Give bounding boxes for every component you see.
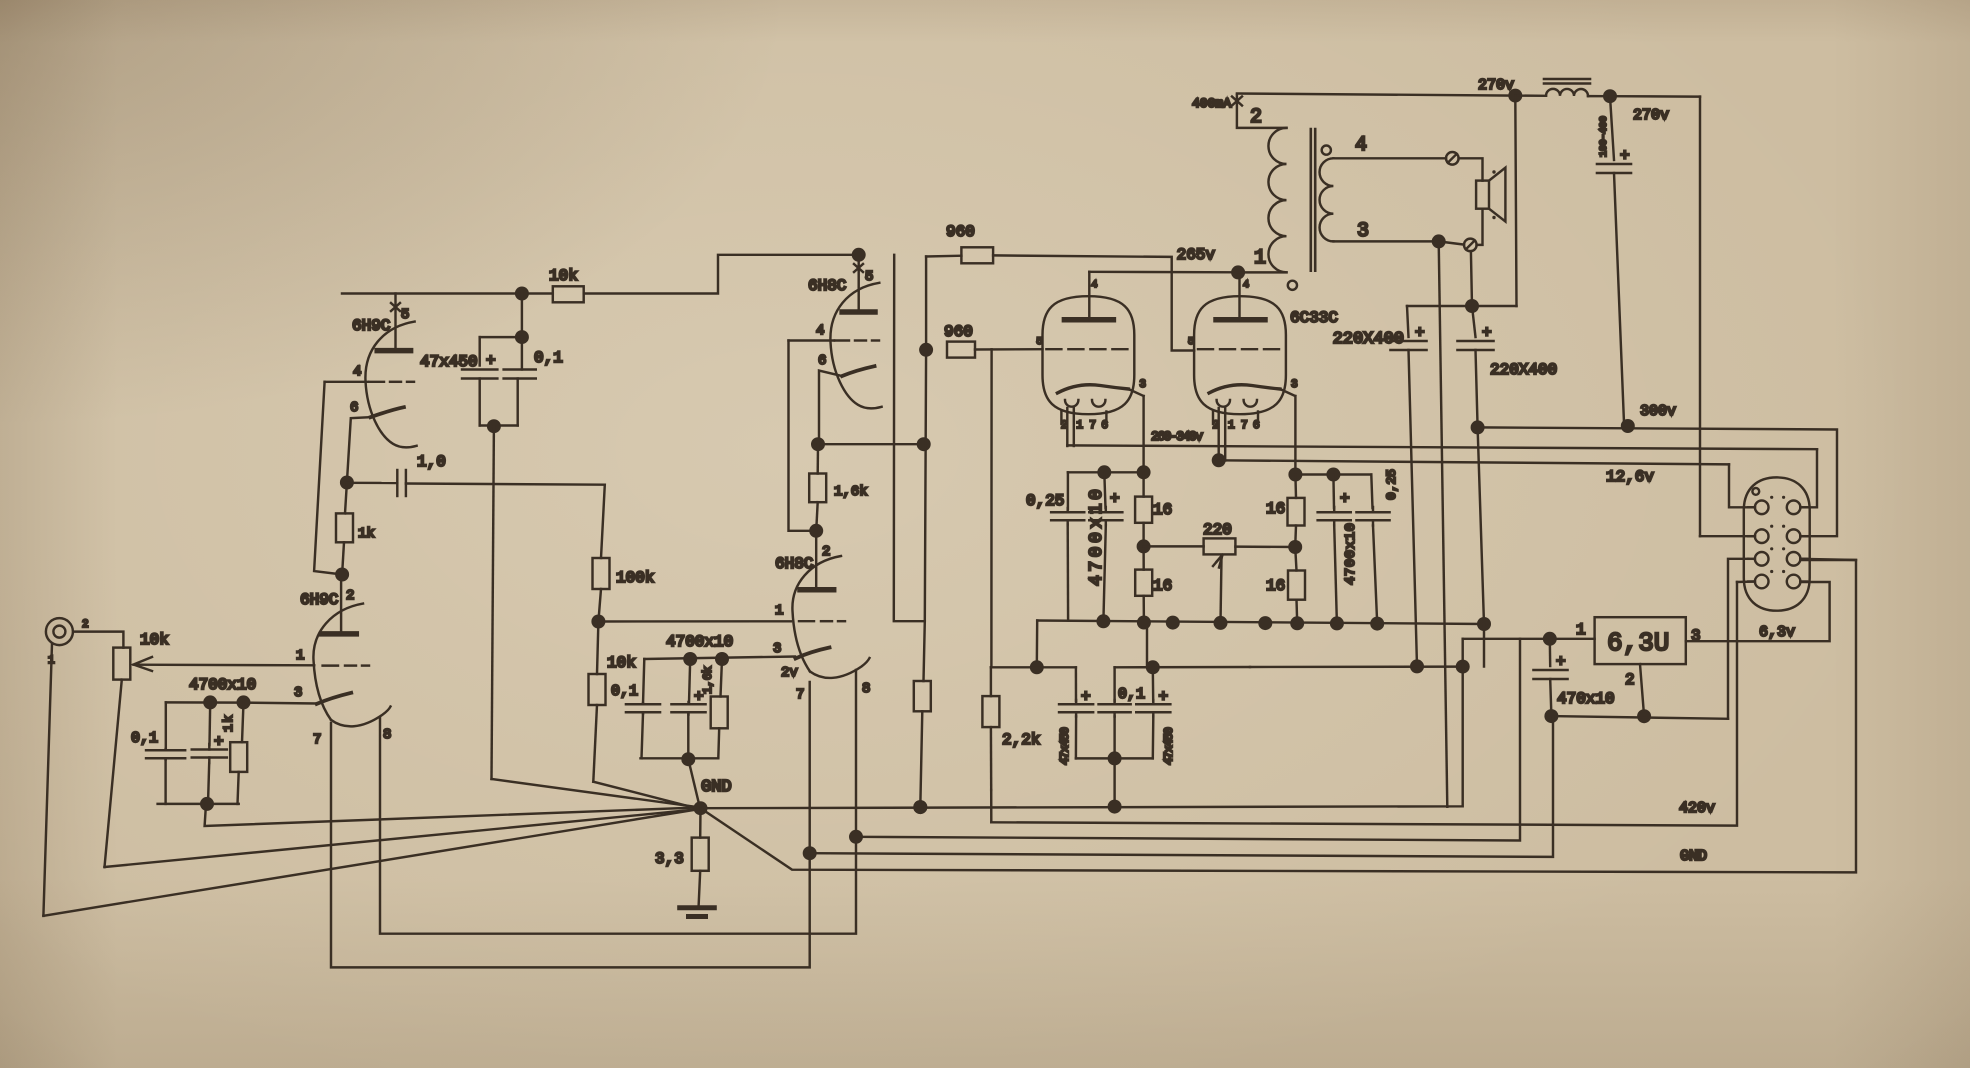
wire R6 bottom lead: [593, 705, 597, 782]
svg-text:10k: 10k: [140, 631, 169, 649]
wire R7 top lead: [721, 659, 723, 697]
svg-text:6,3v: 6,3v: [1759, 624, 1795, 641]
wire C9 bottom lead: [1334, 526, 1337, 624]
svg-text:6: 6: [818, 353, 826, 369]
node reg input / C17 top: [1543, 632, 1557, 646]
node GND bus a: [913, 800, 927, 814]
wire R8 bottom lead: [816, 502, 818, 531]
wire 16 mid to 220: [1144, 545, 1204, 547]
resistor R6 10k: [589, 674, 606, 705]
wire R17 bottom lead: [1295, 600, 1298, 624]
svg-text:47x450: 47x450: [420, 353, 478, 371]
socket pin 3R: [1787, 552, 1801, 566]
wire C16 top lead: [1472, 306, 1476, 337]
wire bus left end down: [1036, 621, 1039, 668]
capacitor C17 470x10: [1534, 669, 1568, 672]
wire fb vertical bottom: [920, 711, 922, 807]
capacitor C4 0,1: [504, 368, 536, 371]
wire C5 top lead: [643, 659, 644, 704]
wire GND to 3,3: [699, 808, 702, 837]
choke L1: [1546, 89, 1588, 96]
wire wiper to grid U1b: [134, 663, 315, 666]
wire C4 bottom lead: [516, 379, 518, 426]
tube U1b grid dashes: [323, 664, 338, 666]
wire C12 bottom lead: [1113, 717, 1115, 759]
svg-text:4700x10: 4700x10: [189, 676, 256, 694]
svg-text:6Н9С: 6Н9С: [352, 317, 390, 335]
wire jack sleeve to GND fan: [43, 810, 696, 916]
wire R13 top lead: [1142, 472, 1144, 496]
svg-text:+: +: [1482, 324, 1492, 342]
svg-text:7: 7: [1241, 420, 1248, 432]
svg-text:1,6k: 1,6k: [701, 666, 715, 694]
tube U1a grid dashes: [369, 381, 384, 383]
node heater A: [803, 846, 817, 860]
wire rail drop 1: [894, 255, 925, 621]
tube U3b heater loops: [1217, 400, 1230, 407]
node U2a plate rail: [852, 248, 866, 262]
node GND: [694, 801, 708, 815]
capacitor C3 47x450 polarized: [462, 368, 497, 371]
node bus wiper: [1214, 616, 1228, 630]
svg-text:100-400: 100-400: [1599, 116, 1610, 157]
tube U3b plate bar: [1216, 317, 1265, 323]
svg-text:220X400: 220X400: [1490, 361, 1557, 379]
wire 220 to right mid: [1235, 545, 1295, 548]
wire C12 top lead: [1113, 667, 1115, 701]
transformer T1 secondary winding: [1320, 158, 1334, 241]
svg-text:400mA: 400mA: [1192, 96, 1231, 111]
wire pot bottom down: [105, 680, 122, 867]
wire primary bottom to 265v: [1238, 271, 1286, 273]
tube U3a cathode exit: [1128, 389, 1143, 396]
wire U1b cathode to network: [166, 702, 317, 703]
svg-text:4: 4: [353, 364, 361, 380]
socket pin 1L: [1755, 501, 1769, 515]
resistor R8 1,6k: [809, 474, 826, 503]
svg-text:0,25: 0,25: [1026, 492, 1064, 510]
wire C9 top lead: [1332, 475, 1335, 509]
svg-text:960: 960: [944, 323, 973, 341]
wire C15 top lead: [1407, 306, 1409, 337]
wire secondary top: [1333, 157, 1446, 159]
regulator 6,3V box: [1595, 617, 1686, 664]
wire heater bus B: [856, 639, 1520, 841]
wire C16 bottom lead: [1476, 350, 1485, 667]
output terminal top: [1446, 152, 1459, 165]
wire plates to 265v node: [1089, 271, 1238, 274]
wire bus-to-bus drop: [1146, 622, 1148, 667]
wire terminal to cap bus: [1471, 251, 1472, 306]
resistor R13 16: [1135, 497, 1152, 523]
wire R6 bottom to GND fan: [593, 782, 698, 809]
tube U3b pin stubs: [1212, 412, 1214, 425]
node C3 C4 bottom: [487, 419, 501, 433]
wire heater bus 12,6v: [1219, 460, 1729, 464]
node U3b heater on bus: [1212, 453, 1226, 467]
wire heater bus A: [810, 716, 1553, 857]
node 265v: [1231, 265, 1245, 279]
capacitor C1b 4700x10 polarized: [192, 748, 227, 751]
svg-text:960: 960: [946, 223, 975, 241]
tube U1b plate bar: [322, 631, 357, 637]
svg-text:16: 16: [1266, 500, 1285, 518]
wire U1b pin8 chain: [380, 670, 856, 934]
svg-text:300v: 300v: [1640, 403, 1676, 420]
svg-text:47x450: 47x450: [1162, 727, 1176, 765]
svg-text:10k: 10k: [607, 654, 636, 672]
tube U3b 6C33C envelope: [1194, 296, 1286, 414]
node C13 top: [1146, 660, 1160, 674]
tube U1b cathode: [317, 693, 352, 704]
svg-text:6: 6: [1253, 420, 1260, 432]
wire grid U2b: [598, 620, 791, 623]
wire C7 bottom lead: [1066, 525, 1069, 621]
wire U2a cathode lead: [819, 371, 842, 445]
wire U2a grid to U2b plate node: [789, 341, 817, 531]
resistor R12 3,3: [692, 838, 709, 871]
wire C6 top lead: [689, 659, 690, 703]
wire U2a grid left: [789, 339, 835, 341]
svg-text:+: +: [1159, 688, 1169, 706]
wire R8 top lead: [816, 444, 819, 473]
wire R8 top node to fb vertical: [818, 443, 924, 445]
svg-text:1: 1: [1576, 621, 1586, 639]
wire net1 bottom to GND fan: [205, 804, 698, 826]
wire C14 bottom lead: [1614, 173, 1624, 423]
node fb vertical tap: [917, 437, 931, 451]
speaker LS1: [1476, 181, 1489, 209]
wire reg input: [1463, 638, 1595, 640]
svg-text:+: +: [486, 352, 496, 370]
svg-text:+: +: [1415, 324, 1425, 342]
wire R16 bottom lead: [1294, 526, 1297, 548]
wire jack sleeve down: [43, 644, 52, 916]
wire R17 top lead: [1295, 547, 1296, 571]
wire right drop to socket row2: [1699, 97, 1701, 537]
wire res R2 top lead: [242, 702, 244, 742]
svg-text:2: 2: [1250, 106, 1262, 129]
node fb to GND bus: [913, 800, 927, 814]
wire speaker return drop: [1439, 241, 1448, 806]
svg-text:0,1: 0,1: [131, 730, 158, 747]
wire C17 bottom lead: [1550, 679, 1551, 716]
input jack J1: [46, 618, 73, 645]
ground symbol: [680, 905, 715, 910]
svg-text:7: 7: [313, 732, 321, 748]
wire R16 top lead: [1294, 475, 1297, 498]
tube U1a cathode: [371, 407, 404, 417]
wire 960 top to U3b grid: [993, 255, 1194, 350]
wire cathode row U3b: [1295, 473, 1371, 475]
tube U1a envelope: [365, 322, 416, 448]
svg-text:270v: 270v: [1478, 77, 1514, 94]
wire R4 to stage2 rail: [584, 255, 859, 294]
svg-text:1: 1: [775, 603, 783, 619]
wire R5 bottom lead: [598, 589, 601, 622]
wire R7 bottom lead: [717, 728, 720, 758]
svg-text:3,3: 3,3: [655, 850, 684, 868]
wire jack tip to pot top: [74, 632, 124, 648]
resistor R10 960: [961, 247, 993, 263]
wire right rail drop: [1515, 96, 1516, 306]
wire R3 bottom lead: [342, 542, 344, 574]
wire C8 bottom lead: [1103, 526, 1105, 622]
wire C3 bottom lead: [478, 379, 480, 426]
svg-text:5: 5: [401, 307, 409, 323]
wire R14 bottom lead: [1142, 596, 1145, 623]
wire 2,2k tap down: [990, 349, 993, 667]
capacitor C13 47x450 polarized: [1136, 703, 1170, 706]
tube U2a envelope: [830, 283, 881, 409]
tube U3a pin stubs: [1060, 412, 1062, 425]
wire C14 top lead: [1610, 96, 1614, 160]
wire net2 top: [644, 657, 795, 660]
svg-text:3: 3: [1357, 220, 1369, 243]
wire net3 top left: [991, 666, 1076, 668]
capacitor C6 4700x10 polarized: [672, 703, 706, 706]
resistor R14 16: [1135, 570, 1152, 596]
svg-text:420v: 420v: [1679, 800, 1715, 817]
resistor R11 960: [947, 342, 975, 358]
wire net2 bottom: [641, 757, 719, 759]
transformer phase dot primary: [1322, 146, 1331, 155]
wire cap C1b bottom lead: [208, 763, 209, 804]
node C3 C4 top: [515, 330, 529, 344]
wire R3 top lead: [345, 483, 347, 514]
wire C3 C4 ground fan to GND: [492, 779, 700, 807]
svg-text:3: 3: [294, 685, 302, 701]
svg-text:1: 1: [296, 648, 304, 664]
svg-text:2: 2: [82, 619, 89, 631]
node plate rail / C3 top: [515, 287, 529, 301]
svg-text:2,2k: 2,2k: [1002, 731, 1040, 749]
node row U3a a: [1097, 465, 1111, 479]
wire R14 top lead: [1142, 546, 1145, 569]
wire top rail: [1237, 94, 1515, 96]
wire C3 C4 bottom: [480, 424, 518, 426]
wire U1b pin7 chain: [331, 682, 810, 967]
socket pin 2L: [1755, 529, 1769, 543]
resistor R5 100k: [593, 558, 610, 589]
svg-text:3: 3: [773, 641, 781, 657]
wire U3b heater drop pair: [1217, 408, 1219, 461]
wire R15 wiper drop: [1221, 557, 1222, 623]
svg-text:1k: 1k: [221, 715, 236, 732]
node bus C8: [1096, 614, 1110, 628]
svg-text:7: 7: [1089, 420, 1096, 432]
tube U3b grid dashes: [1198, 348, 1213, 350]
wire fb vertical top: [925, 257, 927, 350]
svg-text:+: +: [1110, 490, 1120, 508]
resistor R17 16: [1288, 571, 1305, 600]
tube U3a heater loops: [1065, 400, 1078, 407]
capacitor C10 0,25: [1357, 511, 1390, 514]
svg-text:6Н8С: 6Н8С: [775, 555, 813, 573]
wire U3a heater drop pair: [1066, 408, 1068, 446]
svg-text:6Н8С: 6Н8С: [808, 277, 846, 295]
svg-text:0,1: 0,1: [1118, 686, 1145, 703]
node cathode net1 b: [237, 695, 251, 709]
wire secondary bottom: [1333, 240, 1438, 242]
capacitor C11 47x450 polarized: [1059, 703, 1093, 706]
wire C7 top lead: [1067, 472, 1069, 509]
svg-text:6: 6: [1101, 420, 1108, 432]
capacitor C7 0,25: [1051, 511, 1084, 514]
wire secondary bottom b: [1439, 241, 1464, 244]
node net2 bottom: [681, 752, 695, 766]
wire fb vertical mid: [924, 350, 927, 681]
fuse 400mA x mark: [1232, 97, 1242, 106]
socket pin stubs: [1748, 506, 1755, 508]
wire fuse to primary top: [1237, 95, 1287, 128]
wire C10 top lead: [1371, 475, 1372, 509]
node bus x2: [1258, 616, 1272, 630]
svg-text:1: 1: [1228, 420, 1235, 432]
node cathode net1 a: [203, 695, 217, 709]
svg-text:47x450: 47x450: [1058, 727, 1072, 765]
svg-text:100k: 100k: [616, 569, 654, 587]
wire cap C1b top lead: [208, 702, 211, 745]
capacitor C8 4700x10 polarized: [1089, 511, 1122, 514]
svg-text:16: 16: [1153, 577, 1172, 595]
svg-text:2: 2: [1625, 671, 1635, 689]
svg-text:6: 6: [350, 400, 358, 416]
svg-text:0,1: 0,1: [611, 683, 638, 700]
socket pin 4R: [1787, 575, 1801, 589]
svg-text:8: 8: [383, 727, 391, 743]
node heater B: [849, 830, 863, 844]
node bus 16 U3b: [1290, 616, 1304, 630]
wire C2 to 100k top: [406, 484, 605, 559]
wire output bottom bus: [1037, 621, 1484, 625]
node grid U2b: [591, 615, 605, 629]
wire net1 bottom: [158, 803, 239, 805]
tube U2a grid dashes: [835, 339, 849, 341]
wire reg pin2 lead: [1640, 664, 1644, 716]
wire GND long bus: [701, 560, 1857, 872]
tube U1a plate bar: [377, 348, 410, 354]
wire net3 right top: [1115, 666, 1250, 669]
wire terminal to speaker top: [1459, 158, 1483, 180]
svg-text:1,6k: 1,6k: [834, 484, 868, 500]
tube U3a plate bar: [1064, 317, 1113, 323]
wire C3 top lead: [478, 337, 480, 365]
svg-text:8: 8: [862, 681, 870, 697]
svg-text:+: +: [1081, 688, 1091, 706]
svg-text:2: 2: [346, 588, 354, 604]
tube U1a plate lead: [394, 294, 396, 351]
wire GND bus: [701, 639, 1463, 808]
node reg pin2: [1637, 709, 1651, 723]
svg-text:16: 16: [1266, 577, 1285, 595]
resistor R16 16: [1288, 498, 1305, 526]
svg-text:GND: GND: [701, 778, 732, 797]
wire 420v bus: [991, 582, 1737, 826]
tube U1b bottom bowl: [331, 707, 391, 727]
wire socket row4 left: [1737, 580, 1755, 583]
tube U2b plate bar: [800, 587, 834, 593]
svg-text:16: 16: [1153, 501, 1172, 519]
transformer T1 primary winding: [1268, 128, 1286, 272]
resistor R2 1k: [230, 742, 247, 772]
node 16 mid U3b: [1288, 540, 1302, 554]
socket pin 2R: [1787, 529, 1801, 543]
svg-text:470x10: 470x10: [1557, 690, 1615, 708]
tube U1b envelope: [313, 604, 363, 720]
svg-text:2v: 2v: [781, 665, 798, 681]
wire 716 bus to socket row3 left: [1728, 559, 1748, 719]
wire cathode row U3a: [1068, 471, 1144, 473]
socket XS1 outline: [1744, 477, 1810, 610]
tube U3a cathode: [1057, 385, 1128, 393]
node mid bus reg drop: [1456, 660, 1470, 674]
resistor R7 1,6k: [711, 697, 728, 729]
tube U3b plate lead: [1238, 272, 1240, 319]
wire C8 top lead: [1104, 472, 1105, 508]
resistor R9: [914, 681, 931, 711]
svg-text:6,3U: 6,3U: [1607, 628, 1669, 658]
svg-text:220: 220: [1203, 521, 1232, 539]
wire cap C1a top lead: [165, 702, 167, 750]
svg-text:5: 5: [1188, 337, 1194, 348]
wire U1a grid left: [325, 381, 368, 383]
wire R18 to 420v bus: [990, 790, 993, 822]
svg-text:+: +: [214, 733, 224, 751]
svg-text:270v: 270v: [1633, 107, 1669, 124]
tube U3a plate lead: [1088, 272, 1090, 320]
wire pin2 bus 716: [1551, 716, 1728, 719]
tube U3a grid dashes: [1046, 348, 1061, 350]
wire C4 top lead: [521, 337, 523, 369]
wire U1a cathode lead: [347, 417, 371, 482]
resistor R4 10k: [553, 286, 584, 302]
wire rail to choke: [1515, 94, 1546, 97]
svg-text:4: 4: [816, 323, 824, 339]
wire C3 C4 ground drop: [492, 426, 494, 779]
tube U2a plate bar: [842, 309, 875, 315]
wire U3a cathode drop: [1142, 396, 1144, 472]
tube U2b plate lead: [815, 531, 817, 587]
node net3 bottom: [1108, 751, 1122, 765]
node A1 cathode U1a: [340, 476, 354, 490]
wire net3 to GND bus: [1113, 758, 1115, 806]
node 2,2k net: [1030, 660, 1044, 674]
svg-text:10k: 10k: [549, 267, 578, 285]
capacitor C9 4700x10 polarized: [1318, 511, 1351, 514]
wire terminal to speaker bottom: [1477, 209, 1483, 245]
svg-text:+: +: [1556, 653, 1566, 671]
socket pin 1R: [1787, 501, 1801, 515]
tube U3b cathode exit: [1280, 389, 1295, 396]
wire C3 C4 top lead: [521, 294, 523, 338]
potentiometer R1 10k: [113, 648, 130, 680]
capacitor C2 1,0: [396, 470, 398, 496]
svg-text:1k: 1k: [358, 526, 375, 542]
svg-text:5: 5: [865, 269, 873, 285]
capacitor C12 0,1: [1099, 703, 1131, 706]
wire mid bus 666 right: [1250, 665, 1463, 668]
wire 3,3 to ground: [699, 871, 701, 906]
node bus C10: [1370, 617, 1384, 631]
wire cap C1a bottom lead: [164, 760, 166, 804]
node bus 220x400b: [1477, 617, 1491, 631]
node 220x400 top b: [1465, 299, 1479, 313]
node row U3b a: [1288, 468, 1302, 482]
node fb 960 tap: [919, 343, 933, 357]
wire pot bottom to GND fan: [105, 809, 698, 867]
node C17 bottom: [1544, 709, 1558, 723]
